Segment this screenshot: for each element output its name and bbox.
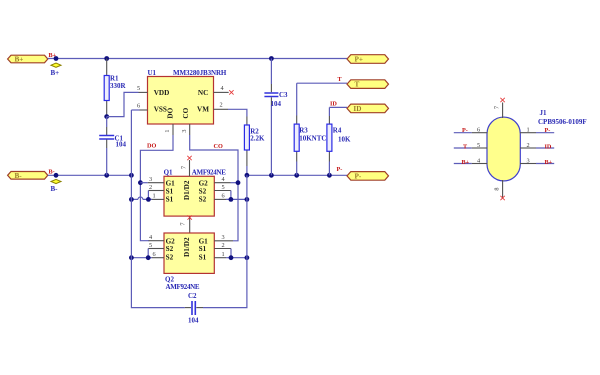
wire VDD link (107, 92, 139, 116)
pin 3 U1 CO (181, 124, 190, 135)
transistor Q1 AMF924NE (164, 168, 227, 216)
svg-text:10K: 10K (338, 136, 351, 144)
wire P- vertical line (203, 175, 247, 307)
svg-text:5: 5 (222, 184, 225, 191)
svg-text:T: T (355, 81, 360, 89)
pin 5 Q1 S2 (214, 184, 231, 191)
svg-text:R4: R4 (333, 127, 342, 135)
junction at B+ (54, 56, 59, 61)
svg-text:6: 6 (477, 127, 480, 134)
pin 4 Q2 G2 (149, 234, 165, 241)
svg-text:104: 104 (271, 100, 282, 108)
junction S2 pins (229, 197, 234, 202)
svg-text:B+: B+ (15, 56, 24, 64)
junction B- line / S1 (129, 197, 134, 202)
no-connect X on NC (229, 90, 233, 94)
pin 4 Q1 G2 (214, 176, 230, 183)
pin 1 Q1 S1 (152, 193, 164, 200)
pin 6 Q1 S2 (214, 193, 226, 200)
svg-text:NC: NC (198, 89, 208, 97)
junction R1 / C1 / VDD (104, 114, 109, 119)
svg-text:3: 3 (181, 129, 188, 132)
wire B- rail (48, 174, 132, 176)
svg-text:S1: S1 (199, 254, 207, 262)
svg-text:1: 1 (527, 127, 530, 134)
capacitor C2 (185, 292, 203, 325)
wire Q1 pin2 drop (147, 191, 149, 200)
svg-text:3: 3 (222, 234, 225, 241)
pin 8 J1 (bottom, no connect) (494, 180, 505, 200)
pin 4 U1 NC (214, 85, 229, 92)
svg-text:G2: G2 (166, 237, 176, 245)
svg-text:B-: B- (15, 172, 23, 180)
svg-text:330R: 330R (110, 82, 127, 90)
port P+ (347, 55, 389, 64)
junction P- rail / R4 (327, 173, 332, 178)
svg-text:Q1: Q1 (164, 168, 173, 176)
svg-text:J1: J1 (540, 109, 548, 117)
svg-text:R3: R3 (299, 127, 308, 135)
svg-text:S1: S1 (166, 196, 174, 204)
svg-text:S2: S2 (199, 196, 207, 204)
junction CO / Q1 G2 (236, 180, 241, 185)
junction P- rail / R3 (294, 173, 299, 178)
svg-text:7: 7 (180, 222, 187, 225)
junction B- line / Q2 S2 (129, 255, 134, 260)
svg-text:10KNTC: 10KNTC (299, 135, 326, 143)
junction B- rail / C1 (104, 173, 109, 178)
svg-text:6: 6 (137, 103, 140, 110)
svg-text:B+: B+ (545, 159, 553, 166)
svg-text:C3: C3 (279, 91, 288, 99)
port P- (347, 172, 389, 181)
resistor R3 10KNTC (294, 83, 326, 175)
svg-text:104: 104 (188, 317, 199, 325)
svg-text:B+: B+ (51, 69, 60, 77)
wire G2 to CO (231, 182, 239, 184)
pin 2 Q1 S1 (148, 184, 164, 191)
svg-text:B+: B+ (462, 159, 470, 166)
pin 2 Q2 S1 (214, 242, 231, 249)
svg-text:C2: C2 (188, 292, 197, 300)
port B+ (8, 55, 48, 63)
svg-text:CPB9506-0109F: CPB9506-0109F (538, 118, 587, 126)
svg-text:P-: P- (462, 127, 468, 134)
svg-text:P+: P+ (355, 56, 364, 64)
svg-text:3: 3 (527, 158, 530, 165)
resistor R4 10K (327, 107, 351, 175)
junction Q2 S2 pins (146, 255, 151, 260)
junction top rail / R1 (104, 56, 109, 61)
svg-text:S1: S1 (199, 245, 207, 253)
svg-text:MM3280JB3NRH: MM3280JB3NRH (173, 69, 227, 77)
pin 4 J1 (454, 158, 488, 165)
wire DO net (140, 135, 173, 241)
wire Q1 pin5 drop (230, 191, 232, 200)
svg-text:DO: DO (166, 107, 174, 118)
svg-text:ID: ID (353, 105, 361, 113)
wire VSS to line (131, 109, 139, 111)
svg-text:S1: S1 (166, 187, 174, 195)
pin 3 Q1 G1 (148, 176, 164, 183)
pin 5 Q2 S2 (148, 242, 164, 249)
pin 3 J1 (520, 158, 554, 165)
junction at B- (54, 173, 59, 178)
pin 1 U1 DO (164, 124, 173, 135)
wire P- rail (247, 174, 347, 176)
svg-text:U1: U1 (148, 69, 157, 77)
pin 5 U1 VDD (137, 85, 148, 92)
capacitor C3 (264, 59, 288, 176)
svg-text:B-: B- (49, 168, 55, 175)
pin 7 J1 (top, no connect) (494, 98, 505, 118)
svg-text:7: 7 (494, 106, 501, 109)
svg-text:8: 8 (494, 187, 501, 190)
pin 2 U1 VM (214, 102, 229, 110)
port ID (347, 104, 389, 113)
svg-text:VM: VM (197, 105, 209, 113)
svg-text:S2: S2 (199, 187, 207, 195)
wire R2 to rail (246, 166, 248, 175)
svg-text:AMF924NE: AMF924NE (166, 283, 200, 291)
wire Q2 pin5 drop (147, 249, 149, 258)
pin 6 J1 (454, 127, 488, 134)
port B- (8, 172, 48, 180)
wire CO net (190, 135, 238, 241)
wire DO to G1 (140, 182, 147, 184)
svg-text:6: 6 (153, 251, 156, 258)
junction top rail / C3 (269, 56, 274, 61)
junction P- rail / C3 (269, 173, 274, 178)
wire top rail B+ (48, 58, 347, 60)
svg-text:P-: P- (355, 173, 362, 181)
svg-text:2: 2 (220, 102, 223, 109)
net identifier diamond B+ (51, 63, 62, 77)
svg-text:2: 2 (527, 142, 530, 149)
junction P- line / Q2 S1 (245, 255, 250, 260)
connector J1 CPB9506-0109F (487, 109, 587, 181)
junction S1 pins (146, 197, 151, 202)
junction P- rail / R2 (245, 173, 250, 178)
svg-text:S2: S2 (166, 254, 174, 262)
svg-text:2.2K: 2.2K (250, 135, 265, 143)
junction P- line / S2 (245, 197, 250, 202)
svg-text:P-: P- (337, 166, 343, 173)
wire Q1 S1 to B- line with hop (131, 197, 152, 199)
svg-text:G2: G2 (199, 180, 209, 188)
svg-text:G1: G1 (199, 237, 209, 245)
junction DO / Q1 G1 (138, 180, 143, 185)
pin 7 Q2 (to Q1, no connect) (180, 215, 192, 233)
wire ID net (329, 106, 347, 108)
junction Q2 S1 pins (229, 255, 234, 260)
svg-text:D1/D2: D1/D2 (183, 237, 191, 257)
junction B- rail / VSS line (129, 173, 134, 178)
pin 5 J1 (454, 142, 488, 149)
wire Q1 S2 to P- line (226, 198, 247, 200)
wire T net (297, 82, 347, 84)
wire Q2 S1 to P- line (226, 257, 247, 259)
svg-text:5: 5 (477, 142, 480, 149)
svg-text:2: 2 (149, 184, 152, 191)
resistor R1 (104, 59, 126, 117)
svg-text:CO: CO (182, 107, 190, 118)
resistor R2 (244, 117, 265, 167)
pin 2 J1 (520, 142, 554, 149)
pin 6 U1 VSS (137, 103, 148, 111)
wire Q2 S2 to B- line (131, 257, 152, 259)
pin 3 Q2 G1 (214, 234, 233, 241)
svg-text:1: 1 (222, 251, 225, 258)
svg-text:B-: B- (51, 185, 59, 193)
svg-text:7: 7 (180, 166, 187, 169)
svg-text:1: 1 (164, 129, 171, 132)
svg-text:VSS: VSS (154, 105, 167, 113)
pin 1 Q2 S1 (214, 251, 226, 258)
svg-text:D1/D2: D1/D2 (183, 180, 191, 200)
svg-text:3: 3 (149, 176, 152, 183)
wire VSS/B- vertical line (131, 110, 184, 308)
svg-text:DO: DO (147, 143, 156, 150)
port T (347, 80, 389, 89)
capacitor C1 (99, 117, 126, 176)
wire Q2 pin2 drop (230, 249, 232, 258)
pin 1 J1 (520, 127, 554, 134)
svg-text:G1: G1 (166, 180, 176, 188)
svg-text:2: 2 (222, 242, 225, 249)
svg-text:CO: CO (214, 143, 223, 150)
pin 7 Q1 (top, no connect) (180, 156, 191, 177)
svg-text:ID: ID (545, 143, 552, 150)
svg-text:5: 5 (137, 85, 140, 92)
svg-text:6: 6 (222, 193, 225, 200)
pin 6 Q2 S2 (152, 251, 164, 258)
wire VM to R2 (228, 109, 247, 116)
svg-text:1: 1 (153, 193, 156, 200)
svg-text:S2: S2 (166, 245, 174, 253)
svg-text:104: 104 (116, 141, 127, 149)
svg-text:ID: ID (330, 101, 337, 108)
svg-text:VDD: VDD (154, 89, 170, 97)
op-amp U1 MM3280JB3NRH (148, 69, 227, 124)
transistor Q2 AMF924NE (164, 233, 214, 291)
svg-text:5: 5 (149, 242, 152, 249)
svg-text:P-: P- (545, 127, 551, 134)
net identifier diamond B- (51, 179, 62, 193)
